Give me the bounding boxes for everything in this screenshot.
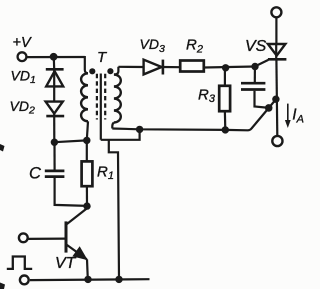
node bottom-left terminal xyxy=(20,276,29,285)
transformer screen line xyxy=(100,74,102,140)
junction dot capacitor return xyxy=(265,104,273,112)
diode VD3 xyxy=(144,60,180,75)
wire capacitor C bottom lead to collector node xyxy=(55,178,87,206)
svg-text:VD1: VD1 xyxy=(11,68,36,87)
wire secondary top to VD3 xyxy=(118,66,143,68)
wire secondary bottom / cathode return xyxy=(112,99,276,130)
svg-text:VT: VT xyxy=(55,255,77,272)
scan mark left edge middle xyxy=(0,144,5,152)
svg-text:R3: R3 xyxy=(198,86,216,105)
junction dot R2/R3 node xyxy=(222,64,229,71)
transformer T primary winding xyxy=(81,56,88,140)
svg-text:R1: R1 xyxy=(97,164,114,183)
wire thyristor gate xyxy=(255,60,268,67)
resistor R3 xyxy=(219,68,230,130)
wire diode branch down from +V rail xyxy=(53,57,56,69)
capacitor C xyxy=(45,171,65,177)
scan mark bottom left corner xyxy=(0,283,5,289)
thyristor VS xyxy=(268,18,287,136)
node base input terminal xyxy=(19,233,28,242)
svg-text:R2: R2 xyxy=(186,37,203,56)
junction dot rail/return riser xyxy=(115,276,122,283)
svg-text:VS: VS xyxy=(245,38,267,55)
wire capacitor C top lead xyxy=(53,142,55,169)
junction dot secondary bottom node xyxy=(136,126,143,133)
pulse input symbol xyxy=(7,257,32,269)
transistor VT xyxy=(66,208,88,279)
resistor R1 xyxy=(82,140,93,206)
arrow IA current xyxy=(285,104,291,128)
svg-text:VD2: VD2 xyxy=(10,98,35,117)
wire +V rail to transformer primary top xyxy=(27,56,85,58)
junction dot collector node xyxy=(83,202,90,209)
junction dot primary bottom xyxy=(83,137,90,144)
transformer polarity dot primary xyxy=(89,68,95,74)
junction dot below diodes xyxy=(51,139,58,146)
wire return riser rail to screen link xyxy=(109,140,119,280)
wire bottom rail xyxy=(30,278,150,281)
junction dot gate node xyxy=(251,63,258,70)
junction dot emitter/rail xyxy=(84,276,91,283)
svg-text:IA: IA xyxy=(292,107,304,126)
wire diode node to primary-bottom node xyxy=(54,140,86,142)
transformer core dashed lines xyxy=(97,74,105,120)
node +V terminal xyxy=(18,52,27,61)
svg-text:+V: +V xyxy=(13,35,32,51)
transformer polarity dot secondary xyxy=(107,68,113,74)
capacitor at gate xyxy=(241,67,267,108)
svg-text:C: C xyxy=(29,164,41,182)
wire screen link to secondary-bottom node xyxy=(101,129,140,139)
junction dot R3 bottom xyxy=(222,126,229,133)
wire base input xyxy=(28,238,66,240)
wire R2 to gate node xyxy=(204,67,255,68)
junction dot cathode line xyxy=(272,96,279,103)
junction dot at +V rail / diode branch xyxy=(50,53,58,61)
svg-text:T: T xyxy=(97,49,108,66)
diode VD2 xyxy=(46,102,65,143)
node anode terminal top right xyxy=(271,7,281,17)
resistor R2 xyxy=(180,61,204,72)
transformer T secondary winding xyxy=(112,67,120,129)
svg-text:VD3: VD3 xyxy=(140,36,165,55)
diode VD1 xyxy=(46,69,64,101)
node cathode terminal bottom right xyxy=(272,136,282,146)
